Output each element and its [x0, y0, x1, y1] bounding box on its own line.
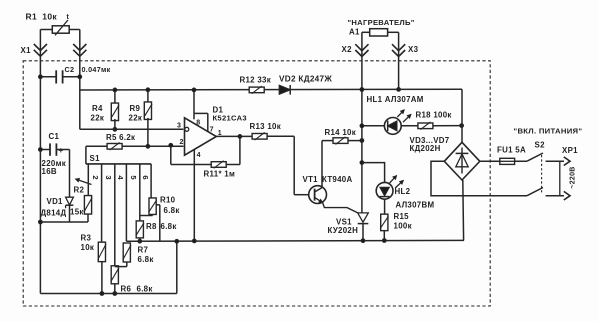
- svg-text:АЛ307ВМ: АЛ307ВМ: [396, 200, 435, 209]
- svg-text:100к: 100к: [394, 222, 412, 231]
- dashed enclosure border: [23, 61, 490, 306]
- resistor R11* 1M feedback: [169, 135, 242, 169]
- svg-text:R13 10к: R13 10к: [250, 122, 282, 131]
- svg-text:КТ940А: КТ940А: [322, 175, 353, 184]
- label R3: [81, 233, 95, 252]
- switch S1 wiper: [86, 146, 151, 164]
- svg-text:15к: 15к: [70, 207, 84, 216]
- pin 2 label: [180, 139, 184, 146]
- svg-text:"НАГРЕВАТЕЛЬ": "НАГРЕВАТЕЛЬ": [348, 18, 415, 27]
- wire R13 to VT1 base: [294, 136, 309, 194]
- svg-text:ХР1: ХР1: [562, 146, 578, 155]
- label R6: [121, 284, 153, 293]
- svg-text:4: 4: [197, 152, 201, 159]
- S1 contact 3: [104, 164, 115, 266]
- S1 contact 4: [116, 164, 126, 241]
- thermistor R1 10k: [40, 14, 79, 35]
- label D1: [213, 106, 247, 123]
- XP1 bracket: [559, 161, 561, 196]
- svg-text:КД202Н: КД202Н: [410, 144, 441, 153]
- svg-text:"ВКЛ. ПИТАНИЯ": "ВКЛ. ПИТАНИЯ": [514, 126, 583, 135]
- label X1: [21, 46, 32, 55]
- label C2 value: [65, 65, 111, 74]
- svg-text:VD1: VD1: [47, 197, 64, 206]
- switch S2 lower blade: [527, 188, 543, 196]
- label R11: [204, 170, 236, 179]
- svg-text:К521СА3: К521СА3: [213, 113, 247, 122]
- led HL1 AL307AM: [360, 110, 411, 135]
- wire X1.2 lead down: [79, 30, 81, 130]
- label R12: [240, 76, 272, 85]
- svg-text:C2: C2: [65, 65, 75, 74]
- svg-text:C1: C1: [49, 132, 60, 141]
- trimmer R2 15k: [76, 178, 93, 222]
- svg-text:0.047мк: 0.047мк: [82, 65, 111, 74]
- svg-text:t: t: [67, 14, 70, 21]
- svg-text:6.8к: 6.8к: [138, 255, 154, 264]
- label VD3-VD7: [410, 136, 450, 153]
- label HL1: [367, 95, 424, 104]
- plug XP1 pin2: [546, 191, 570, 200]
- resistor R12 33k: [249, 86, 264, 94]
- svg-text:R8: R8: [146, 222, 157, 231]
- svg-text:R7: R7: [138, 246, 149, 255]
- rectifier bridge VD3-VD7: [444, 142, 480, 180]
- wire R2 VD1 to left rail: [39, 220, 89, 224]
- led HL2 AL307VM: [360, 161, 403, 214]
- wire top rail: [80, 88, 462, 91]
- connector X3: [392, 44, 419, 56]
- svg-text:R11* 1м: R11* 1м: [204, 170, 236, 179]
- label VT1: [303, 175, 353, 184]
- wire bottom ground rail: [40, 293, 176, 295]
- resistor R15 100k: [380, 214, 388, 242]
- resistor R3 10k: [98, 242, 106, 295]
- svg-text:10к: 10к: [81, 243, 95, 252]
- svg-text:R6: R6: [121, 284, 132, 293]
- svg-text:X2: X2: [342, 45, 353, 54]
- svg-text:22к: 22к: [129, 114, 143, 123]
- resistor R6 6.8k: [111, 266, 119, 296]
- S1 contact 5: [129, 164, 140, 216]
- label R9: [129, 104, 143, 123]
- label S1: [90, 154, 101, 163]
- svg-text:R1 10к: R1 10к: [26, 12, 58, 22]
- label VKL PITANIYA: [514, 126, 583, 135]
- svg-text:R18 100к: R18 100к: [416, 111, 452, 120]
- svg-text:VT1: VT1: [303, 175, 319, 184]
- label VD2: [279, 74, 332, 83]
- capacitor C2 0.047u: [39, 70, 82, 83]
- label XP1: [562, 146, 578, 155]
- pin 3 label: [177, 123, 181, 130]
- wire X2 lead / VS1 anode: [360, 32, 401, 213]
- wire rail to bridge top: [461, 89, 463, 142]
- svg-text:6.8к: 6.8к: [164, 206, 180, 215]
- svg-text:6.8к: 6.8к: [161, 222, 177, 231]
- resistor R7 6.8k: [115, 243, 131, 267]
- label FU1: [497, 146, 526, 155]
- svg-text:7: 7: [210, 127, 214, 134]
- label VD1: [41, 197, 67, 218]
- svg-text:R2: R2: [74, 185, 85, 194]
- svg-text:HL1 АЛ307АМ: HL1 АЛ307АМ: [367, 95, 424, 104]
- label R15: [394, 212, 412, 231]
- svg-text:R3: R3: [81, 233, 92, 242]
- svg-text:FU1 5А: FU1 5А: [497, 146, 526, 155]
- connector X1 pin1: [34, 44, 47, 56]
- wire left rail X1.1 to bottom rail: [39, 30, 41, 294]
- svg-text:R9: R9: [130, 104, 141, 113]
- svg-text:R14 10к: R14 10к: [325, 128, 357, 137]
- wire negative rail: [126, 239, 464, 243]
- svg-text:3: 3: [177, 123, 181, 130]
- label R14: [325, 128, 357, 137]
- svg-text:5: 5: [129, 175, 138, 180]
- svg-text:16В: 16В: [42, 167, 57, 176]
- svg-text:Д814Д: Д814Д: [41, 208, 67, 217]
- label C1: [42, 132, 66, 176]
- svg-text:2: 2: [180, 139, 184, 146]
- S2 linkage: [541, 155, 543, 194]
- transistor VT1 KT940A: [309, 141, 359, 214]
- zener VD1 D814D: [66, 150, 74, 223]
- svg-text:R5 6.2к: R5 6.2к: [106, 133, 135, 142]
- svg-text:VD2 КД247Ж: VD2 КД247Ж: [279, 74, 332, 83]
- svg-text:R15: R15: [394, 212, 410, 221]
- resistor R18 100k: [401, 122, 463, 130]
- label R5: [106, 133, 135, 142]
- connector X2: [342, 44, 369, 56]
- heater A1: [362, 29, 399, 90]
- label R4: [91, 104, 105, 123]
- svg-text:22к: 22к: [91, 114, 105, 123]
- svg-text:3: 3: [104, 175, 113, 180]
- wire bridge bottom to neg rail: [462, 180, 465, 240]
- S1 contact 2: [91, 164, 102, 242]
- svg-text:КУ202Н: КУ202Н: [328, 226, 359, 235]
- svg-text:HL2: HL2: [395, 187, 411, 196]
- label R10: [160, 195, 180, 215]
- resistor R4 22k: [111, 88, 119, 131]
- svg-text:8: 8: [196, 120, 200, 127]
- wire op-amp pin3 input: [80, 128, 184, 130]
- switch S2 upper blade: [527, 153, 543, 161]
- svg-text:R12 33к: R12 33к: [240, 76, 272, 85]
- svg-text:S1: S1: [90, 154, 101, 163]
- plug XP1 pin1: [546, 157, 570, 166]
- resistor R13 10k: [216, 133, 294, 141]
- label heater: [348, 18, 415, 37]
- label HL2: [395, 187, 435, 209]
- pin 8 label: [196, 120, 200, 127]
- svg-text:+: +: [59, 146, 64, 155]
- resistor R14 10k: [322, 137, 364, 145]
- fuse FU1 5A: [480, 158, 527, 164]
- label 220V: [570, 166, 577, 188]
- svg-text:2: 2: [91, 175, 100, 180]
- pin 7 label: [210, 127, 214, 134]
- label R1 10k: [26, 12, 58, 22]
- pin 4 label: [197, 152, 201, 159]
- op-amp D1 K521SA3: [185, 88, 217, 241]
- capacitor C1 220u 16V: [39, 143, 70, 155]
- label VS1: [328, 217, 359, 235]
- svg-text:6.8к: 6.8к: [137, 284, 153, 293]
- label S2: [535, 140, 546, 149]
- pin 1 label: [218, 130, 222, 137]
- connector X1 pin2: [73, 44, 86, 56]
- label R7: [138, 246, 154, 265]
- svg-text:R10: R10: [160, 195, 176, 204]
- S1 contact 6: [141, 164, 151, 198]
- thyristor VS1 KU202N: [358, 213, 369, 243]
- svg-text:А1: А1: [349, 28, 360, 37]
- resistor R9 22k: [144, 88, 152, 148]
- label R18: [416, 111, 452, 120]
- label R8: [146, 222, 177, 231]
- wire bridge AC1 to S2 lower: [431, 161, 527, 195]
- svg-text:R4: R4: [92, 104, 103, 113]
- wire neg rail to ground rail: [175, 239, 179, 293]
- svg-text:X1: X1: [21, 46, 32, 55]
- svg-text:6: 6: [141, 175, 150, 180]
- S1 contact 1: [87, 164, 89, 182]
- label R2: [70, 185, 84, 216]
- svg-text:4: 4: [116, 175, 125, 180]
- svg-text:~220В: ~220В: [570, 166, 577, 188]
- diode VD2 KD247: [279, 85, 290, 95]
- resistor R8 6.8k: [136, 216, 153, 244]
- resistor R10 6.8k: [149, 198, 160, 241]
- label R13: [250, 122, 282, 131]
- svg-text:X3: X3: [408, 45, 419, 54]
- resistor R5 6.2k: [86, 143, 183, 151]
- svg-text:S2: S2: [535, 140, 546, 149]
